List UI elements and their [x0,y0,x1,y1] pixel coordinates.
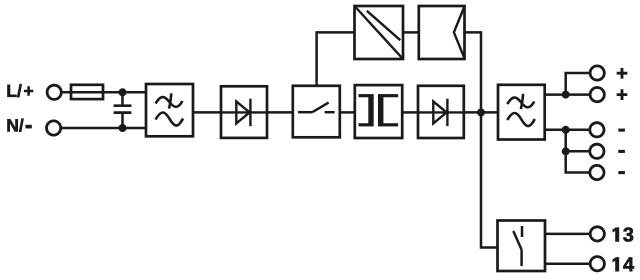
wire switch to transformer [340,111,355,114]
wire relay to terminal 13 [545,233,589,236]
wire L/+ input line [63,91,147,94]
terminal N/- [47,121,61,135]
label 14 [613,257,634,271]
dc/dc isolation block U1 [355,6,404,59]
wire N/- input line [62,127,146,130]
junction feedback tap [477,108,485,116]
output rectifier block [418,86,464,138]
junction plus bus [562,91,570,99]
terminal minus 3 [590,165,604,179]
relay block K1 [498,221,546,272]
output filter symbol (sine waves) [507,94,535,126]
switch symbol [298,103,335,113]
transformer block [355,85,402,138]
label plus 1 [617,68,627,78]
wire feedback right and down to relay [465,32,498,247]
wire plus bus up to first plus terminal [566,73,589,95]
transformer symbol (primary and secondary windings) [359,94,398,126]
wire minus bus to middle minus terminal [566,150,589,153]
wire feedback from switch up [317,32,355,85]
terminal minus 1 [590,123,604,137]
wire output filter plus rail [545,93,589,96]
input filter block [146,84,193,136]
wire transformer to output rectifier [402,111,418,114]
rectifier diode symbol [221,99,267,126]
wire filter to rectifier [193,111,221,114]
wire output rectifier to output filter [464,111,498,114]
wire output filter minus rail [545,129,589,132]
switching stage block [293,86,340,138]
output filter block [498,85,545,140]
label N/- [7,119,31,132]
label plus 2 [617,90,627,100]
rectifier block [221,86,267,138]
fuse F1 [71,85,103,99]
relay contact symbol [513,226,522,266]
label L/+ [7,84,33,97]
terminal 14 [590,257,604,271]
terminal plus 2 [590,88,604,102]
label minus 2 [618,150,625,153]
regulator block U2 [419,6,465,59]
wire isolation to regulator [403,31,419,34]
terminal plus 1 [590,66,604,80]
junction input top [119,88,127,96]
terminal 13 [590,227,604,241]
terminal L/+ [47,85,61,99]
junction minus bus 1 [562,126,570,134]
label minus 3 [618,171,625,174]
wire relay to terminal 14 [545,262,589,265]
junction minus bus 2 [562,147,570,155]
wire minus bus down [566,130,589,173]
wire rectifier to switch [267,111,293,114]
output rectifier diode symbol [418,99,464,126]
label minus 1 [618,129,625,132]
terminal minus 2 [590,144,604,158]
input filter symbol (sine waves) [156,93,184,125]
capacitor input X-cap [114,92,132,128]
junction input bottom [119,124,127,132]
label 13 [613,227,633,241]
